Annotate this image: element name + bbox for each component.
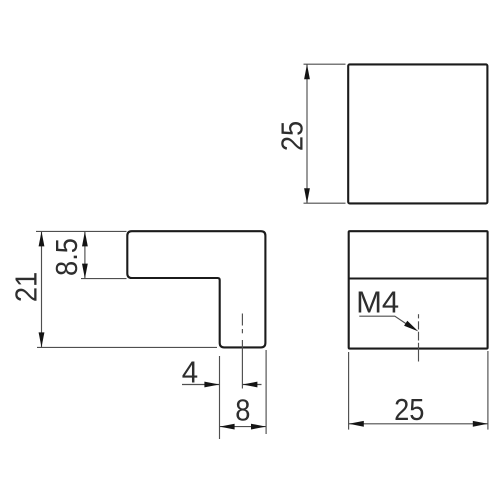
- dimension line 25 vertical: [304, 64, 310, 203]
- extension line bottom (25 vertical dim): [304, 202, 346, 204]
- square face view (top view 25x25): [348, 64, 487, 203]
- label 4: [182, 356, 198, 390]
- svg-text:8: 8: [235, 394, 250, 428]
- side view outline: [349, 231, 488, 348]
- extension line top shared (21 / 8.5): [36, 230, 127, 232]
- svg-text:21: 21: [10, 272, 44, 302]
- label M4: [356, 284, 399, 319]
- label 8.5 (vertical): [50, 238, 84, 276]
- extension line leg right (8 dim): [265, 350, 267, 434]
- dimension line 8.5: [82, 231, 88, 278]
- extension line side view left (25 dim): [348, 352, 350, 430]
- side view parting line: [349, 277, 488, 279]
- extension line leg left (4 / 8 dims): [219, 356, 221, 439]
- L-profile outline (front view): [127, 231, 265, 347]
- dimension line 25 bottom: [349, 421, 488, 427]
- dimension 4 (left arrow segment): [182, 382, 219, 388]
- svg-text:25: 25: [276, 121, 310, 151]
- dimension line 8: [220, 424, 266, 430]
- extension line top (25 vertical dim): [304, 63, 346, 65]
- label 21 (vertical): [10, 272, 44, 302]
- svg-text:4: 4: [182, 356, 198, 390]
- label 8: [235, 394, 250, 428]
- svg-text:8.5: 8.5: [50, 238, 84, 276]
- extension line 21 bottom: [37, 346, 217, 348]
- label 25 (vertical): [276, 121, 310, 151]
- extension line side view right (25 dim): [487, 351, 489, 430]
- svg-text:25: 25: [394, 393, 424, 427]
- extension line 8.5 bottom: [81, 278, 127, 280]
- centerline hole axis (front view): [241, 314, 243, 389]
- svg-text:M4: M4: [356, 284, 399, 319]
- leader M4: [359, 316, 418, 331]
- centerline M4 axis (side view): [418, 314, 420, 361]
- label 25 (bottom): [394, 393, 424, 427]
- dimension 4 (right arrow segment): [242, 382, 261, 388]
- dimension line 21: [39, 231, 45, 347]
